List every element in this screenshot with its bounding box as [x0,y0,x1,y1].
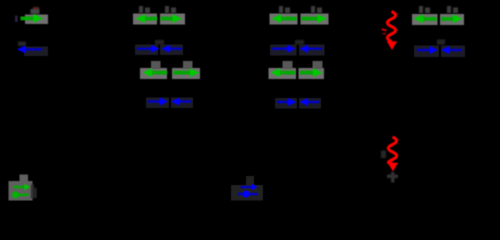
ghost tab left of bottom photon [381,151,386,159]
panel 2 row1 green arrow left [136,14,158,23]
legend blue vector arrow glyph [241,184,258,191]
panel 3 row3 green arrow right [300,68,323,77]
panel 2 row2 blue arrow pointing left [162,45,183,53]
panel 3 row2 ghost center [295,40,304,45]
panel 4 row2 blue arrow pointing left [441,46,462,54]
panel 2 halo boxes row1 [133,14,157,25]
panel 3 halo boxes row3 [269,68,297,79]
panel 2 halo boxes row4 [146,98,169,109]
legend green letter glyph [12,191,28,198]
panel 3 halo boxes row4 [275,98,297,109]
panel 2 row3 green arrow right [174,68,200,77]
panel 3 halo boxes row1 [270,14,298,25]
panel 1 halo box row1 [25,15,48,25]
panel 2 row4 blue arrow pointing right [148,98,168,106]
panel 2 row2 ghost center [155,40,164,45]
panel 3 row1 label ghosts [279,6,322,13]
panel 3 row1 green arrow right [302,14,328,23]
panel 4 row1 green arrow left [414,14,437,23]
panel 3 row4 blue arrow pointing left [300,98,320,106]
panel 4 row1 label ghosts [419,6,458,13]
panel 2 halo boxes row2 [135,45,158,56]
panel 4 row2 ghost center [437,40,445,45]
panel 2 row1 label ghosts [139,6,176,13]
legend blue letter glyph [238,191,258,198]
legend blue halo box [231,176,263,201]
legend green halo box [9,175,33,201]
panel 2 row3 green arrow left [143,68,168,77]
panel 2 row3 ghost tabs [151,61,193,69]
panel 3 row3 green arrow left [271,68,296,77]
panel 1 photon arrow blue left [17,45,42,53]
panel 2 halo boxes row3 [140,68,167,79]
panel 1 ghost above blue arrow [18,42,26,47]
panel 4 halo boxes row1 [412,14,438,25]
panel 1 label ghost above arrow [31,7,40,14]
legend green vector arrow glyph [14,184,31,191]
panel 3 row3 ghost tabs [283,61,323,69]
panel 3 row4 blue arrow pointing right [277,98,297,106]
panel 4 row1 green arrow right [441,14,463,23]
panel 4 row2 blue arrow pointing right [417,46,438,54]
panel 3 row1 green arrow left [272,14,297,23]
ghost cross below bottom photon [387,172,398,183]
panel 3 halo boxes row2 [270,45,297,56]
panel 1 molecule arrow green right [21,14,44,23]
panel 2 row2 blue arrow pointing right [137,45,160,53]
panel 3 row2 blue arrow pointing left [300,45,323,53]
panel 1 halo box row2 [24,47,48,57]
panel 1 small glyph left of arrow [15,16,18,23]
panel 2 row4 blue arrow pointing left [171,98,191,106]
legend green ghost text right [31,185,37,199]
panel 2 row1 green arrow right [161,14,183,23]
panel 3 row2 blue arrow pointing right [272,45,296,53]
panel 4 halo boxes row2 [414,46,439,58]
